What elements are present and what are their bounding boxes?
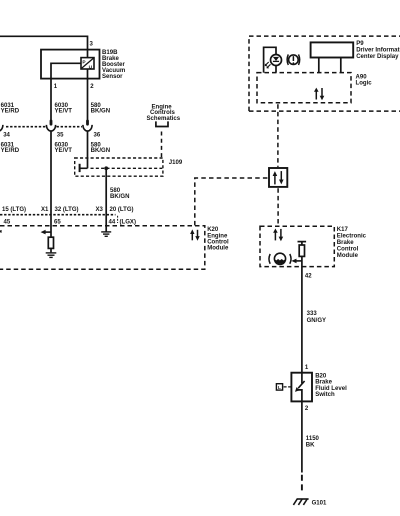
svg-text:Switch: Switch (315, 392, 335, 398)
svg-text:Engine: Engine (207, 233, 228, 239)
connector cup pin 35 (46, 125, 55, 131)
wire 6030 YE/VT run (50, 130, 52, 237)
svg-text:Brake: Brake (315, 380, 332, 386)
svg-text:K20: K20 (207, 227, 219, 233)
K17 pull-up resistor (298, 242, 307, 257)
svg-text:2: 2 (90, 84, 94, 90)
svg-text:BK/GN: BK/GN (91, 108, 110, 114)
dashed link gateway up to A90 (277, 104, 279, 167)
svg-text:36: 36 (94, 132, 101, 138)
svg-text:Module: Module (207, 246, 229, 252)
wire 580 BK/GN run into J109 (87, 130, 89, 168)
K20 name label (207, 227, 229, 252)
svg-text:Center Display: Center Display (356, 54, 399, 60)
B19B name label (102, 50, 125, 80)
B20 name label (315, 373, 347, 398)
svg-text:BK: BK (306, 443, 315, 449)
ground (K20 internal, signal low) (101, 232, 111, 236)
svg-text:Control: Control (337, 246, 359, 252)
svg-text:42: 42 (305, 274, 312, 280)
wire pin 1 (5V ref) (51, 63, 81, 121)
wire label 6030 YE/VT (55, 103, 73, 114)
wire label 6031 YE/RD (1, 103, 20, 114)
svg-text:Control: Control (207, 240, 229, 246)
resistor in K20 (48, 237, 53, 248)
svg-text:65: 65 (54, 219, 61, 225)
LED emission arrows (265, 62, 271, 68)
svg-text:Schematics: Schematics (147, 116, 181, 122)
connector cup left (clipped) (0, 125, 3, 131)
svg-text:U: U (89, 64, 93, 70)
svg-text:A90: A90 (356, 74, 368, 80)
connector X1/X3 row labels (2, 207, 134, 213)
brake warning indicator (!) (287, 54, 300, 65)
serial data dashed link from K20 (195, 178, 269, 225)
pressure transducer symbol P/U (81, 58, 94, 71)
wire 580 BK/GN from J109 to K20 ground (105, 168, 107, 232)
svg-text:1150: 1150 (306, 436, 320, 442)
fluid level linkage L (276, 384, 291, 392)
serial data gateway box (269, 168, 287, 187)
wire label 6031 YE/RD lower (1, 143, 20, 154)
display legs (319, 58, 341, 73)
K20 serial data arrows (190, 229, 200, 240)
connector terminal cap pin 35 (50, 120, 53, 126)
A90 serial arrows (314, 88, 324, 101)
ground (K20 internal, under resistor) (46, 253, 57, 258)
svg-text:Brake: Brake (337, 240, 354, 246)
A90 name label (356, 74, 373, 86)
K17 serial arrows (273, 229, 283, 242)
dashed link gateway down to K17 (277, 188, 279, 225)
chassis ground G101 (293, 499, 308, 505)
K20 5V ref arrow (clipped at edge) (0, 230, 2, 233)
svg-text:44: 44 (109, 219, 116, 225)
wire label 580 BK/GN lower (91, 143, 110, 154)
wire label 580 BK/GN below J109 (110, 188, 129, 200)
B20 Brake Fluid Level Switch box (291, 373, 312, 402)
connector cup pin 36 (83, 125, 92, 131)
off-page bracket (156, 121, 168, 126)
J109 junction dot (104, 166, 108, 170)
connector C1 dotted line (6, 126, 82, 128)
wire pin 2 (signal) (87, 69, 89, 121)
connector pin labels (4, 219, 136, 225)
J109 internal dashed bus (91, 167, 163, 169)
wire pin3 internal (87, 50, 89, 58)
svg-text:J109: J109 (169, 160, 183, 166)
K17 sense arrow (296, 260, 302, 262)
svg-text:15 (LTG): 15 (LTG) (2, 207, 26, 213)
svg-text:L: L (278, 385, 281, 391)
svg-text:P9: P9 (356, 41, 364, 47)
svg-text:45: 45 (4, 219, 11, 225)
svg-text:YE/VT: YE/VT (55, 108, 73, 114)
svg-text:GN/GY: GN/GY (307, 318, 327, 324)
wire label 6030 YE/VT lower (55, 143, 73, 154)
wire resistor to ground (50, 248, 52, 252)
svg-text:G101: G101 (312, 501, 327, 507)
svg-text:Fluid Level: Fluid Level (315, 386, 347, 392)
K17 name label (337, 227, 367, 259)
B19B sensor box (41, 50, 100, 79)
wire 5V reference feed to sensor pin 3 (0, 36, 88, 49)
gateway arrows (273, 171, 284, 184)
wire label 333 GN/GY (307, 311, 327, 324)
K20 Engine Control Module box (0, 226, 205, 270)
svg-text:K17: K17 (337, 227, 349, 233)
K17 Electronic Brake Control Module box (260, 226, 334, 266)
P9 Driver Information Center Display box (249, 36, 400, 111)
svg-text:B20: B20 (315, 373, 327, 379)
svg-text:Electronic: Electronic (337, 234, 367, 240)
svg-text:Driver Information: Driver Information (356, 48, 400, 54)
svg-text:YE/VT: YE/VT (55, 148, 73, 154)
svg-text:32 (LTG): 32 (LTG) (55, 207, 79, 213)
svg-text:Module: Module (337, 253, 359, 259)
indicator LED lamp (271, 55, 282, 73)
pin variant separator (117, 216, 119, 223)
connector terminal cap pin 36 (86, 120, 89, 126)
svg-text:1: 1 (54, 84, 58, 90)
wire label 580 BK/GN (91, 103, 110, 114)
P9 name label (356, 41, 400, 60)
K20 signal arrow (45, 231, 51, 233)
dashed wire to ground (301, 475, 303, 494)
svg-text:(LGX): (LGX) (120, 219, 136, 225)
display rectangle (311, 42, 354, 57)
svg-text:333: 333 (307, 311, 318, 317)
wire K17 pin 42 down to B20 (301, 256, 303, 372)
svg-text:1: 1 (305, 365, 309, 371)
off-page dashed link wire (161, 132, 163, 158)
svg-text:YE/RD: YE/RD (1, 148, 20, 154)
svg-text:BK/GN: BK/GN (110, 194, 129, 200)
svg-text:BK/GN: BK/GN (91, 148, 110, 154)
svg-text:YE/RD: YE/RD (1, 108, 20, 114)
svg-text:Sensor: Sensor (102, 74, 123, 80)
indicator lamp loop wire (264, 47, 276, 72)
J109 end terminal (79, 164, 81, 172)
svg-text:X3: X3 (96, 207, 104, 213)
svg-text:X1: X1 (41, 207, 49, 213)
B20 switch symbol (295, 373, 305, 402)
svg-text:3: 3 (90, 41, 94, 47)
Engine Controls Schematics reference (147, 104, 181, 122)
svg-text:34: 34 (3, 132, 10, 138)
svg-text:Logic: Logic (356, 81, 373, 87)
svg-text:20 (LTG): 20 (LTG) (110, 207, 134, 213)
svg-text:35: 35 (57, 132, 64, 138)
svg-text:2: 2 (305, 406, 309, 412)
splice pack J109 box (75, 158, 163, 176)
A90 Logic box (257, 73, 351, 103)
K17 brake fluid indicator (269, 253, 291, 264)
wire label 1150 BK (306, 436, 320, 449)
connector X1/X3 dotted line (0, 214, 116, 216)
wire B20 pin 2 down (301, 401, 303, 472)
